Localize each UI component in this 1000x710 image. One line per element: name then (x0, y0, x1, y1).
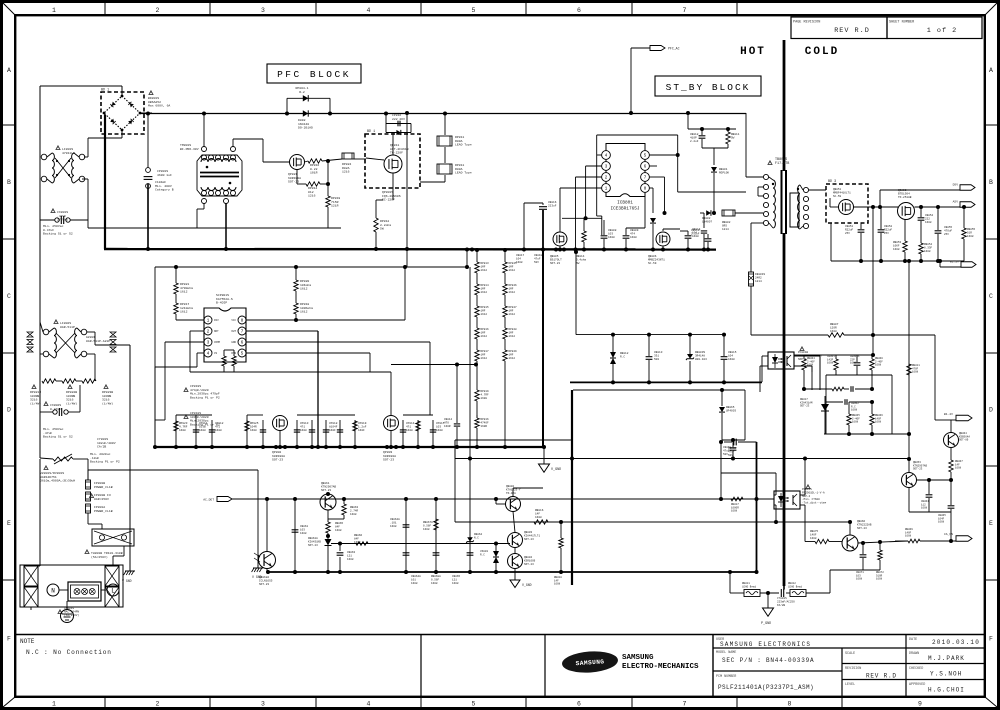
mosfet QP801 main PFC switch (384, 155, 402, 173)
wire x576 vcc drop (575, 254, 577, 335)
capacitor CB808 (601, 235, 608, 237)
resistor RP813 divider column A (475, 262, 479, 273)
svg-text:CS: CS (214, 352, 218, 355)
ST_BY BLOCK label box (655, 76, 761, 96)
svg-text:25V: 25V (845, 232, 850, 235)
svg-text:5: 5 (472, 701, 476, 708)
svg-text:HOT: HOT (740, 46, 766, 58)
resistor RP823 on pfc gnd bus (175, 420, 177, 447)
resistor RB863 (343, 499, 345, 504)
earth ground symbol (66, 601, 68, 609)
svg-text:H.G.CHOI: H.G.CHOI (928, 687, 965, 694)
HOT COLD divider line upper segment (783, 40, 786, 171)
resistor RB855 (962, 228, 966, 239)
connector B1.2V out (961, 262, 976, 268)
svg-text:SOT-23: SOT-23 (259, 583, 269, 586)
svg-text:SAMSUNG: SAMSUNG (622, 654, 654, 662)
capacitor CP815 on pfc gnd bus (432, 420, 434, 447)
svg-text:SOT-23: SOT-23 (913, 468, 923, 471)
resistor RP819 (326, 196, 330, 207)
svg-text:1608: 1608 (630, 236, 637, 239)
svg-text:0AR-511P-A21P: 0AR-511P-A21P (86, 339, 110, 343)
wires AC inlet (39, 560, 41, 566)
transistor QB861 (320, 494, 336, 510)
svg-text:NOTE: NOTE (20, 638, 35, 645)
chassis ground V GND hatch (129, 565, 131, 571)
transistor QB802 cold left (506, 497, 521, 512)
svg-text:V_GND: V_GND (551, 468, 561, 472)
IC ICB801 pins left (602, 151, 611, 160)
svg-text:47011LB: 47011LB (62, 151, 75, 155)
svg-text:V GND: V GND (122, 579, 132, 583)
svg-text:R.C: R.C (620, 356, 625, 359)
wire bridge box entry (121, 86, 123, 96)
svg-text:SHEET NUMBER: SHEET NUMBER (889, 21, 915, 25)
wire LF801 right to bridge (84, 156, 88, 158)
box resistor RB802 (722, 210, 735, 216)
svg-text:1612: 1612 (300, 287, 308, 291)
svg-text:SOT-23: SOT-23 (857, 527, 867, 530)
svg-text:1608: 1608 (731, 510, 738, 513)
svg-text:ICB801: ICB801 (617, 201, 633, 206)
svg-text:2.2uF: 2.2uF (690, 140, 699, 143)
wire resistor row (56, 380, 62, 382)
resistor RP816 gate (308, 159, 322, 163)
svg-text:(1/4W): (1/4W) (66, 401, 77, 405)
resistor RP814 divider column A (475, 284, 479, 295)
mosfet QP803 gate driver (384, 416, 399, 431)
wire TM801S top pins (203, 114, 205, 147)
TM801S top edge pins (202, 155, 207, 160)
page revision box top right (791, 17, 887, 39)
svg-text:PCM NUMBER: PCM NUMBER (716, 675, 736, 679)
svg-text:1216: 1216 (308, 194, 316, 198)
svg-text:8: 8 (788, 701, 792, 708)
fuse FP802B (86, 492, 91, 501)
wire CX802 right up (79, 385, 81, 412)
svg-text:1608: 1608 (452, 582, 459, 585)
transistor QB803 (508, 533, 523, 548)
svg-text:REV R.D: REV R.D (866, 673, 897, 680)
svg-text:160F: 160F (358, 429, 365, 432)
connector D5V (960, 185, 975, 191)
resistor RP820 right of IC (294, 280, 298, 291)
svg-text:N: N (51, 588, 55, 595)
wire BD3 to output rail y207 (854, 206, 899, 208)
wire y335 extension to x935 rail (873, 334, 935, 336)
wire x155 vertical (154, 267, 156, 447)
resistor RP812 power (374, 218, 378, 232)
resistor RB869 to CA_ON (908, 539, 920, 543)
svg-text:1608: 1608 (893, 248, 900, 251)
svg-text:OUT: OUT (231, 330, 236, 333)
capacitor CB862 fb (844, 399, 846, 405)
cold mid line y522 (455, 521, 850, 523)
wire y543 regulator line (331, 543, 510, 545)
opto coupler PC801B top (768, 352, 794, 369)
resistor RB817 on acdet line (731, 497, 743, 501)
svg-text:1608: 1608 (431, 582, 438, 585)
svg-text:1608: 1608 (215, 429, 222, 432)
transistor QB866 (842, 535, 858, 551)
svg-text:1608: 1608 (938, 521, 945, 524)
svg-text:1608: 1608 (411, 582, 418, 585)
svg-text:TO-251AB: TO-251AB (898, 196, 912, 199)
thick PFC return bus y249 (104, 248, 716, 251)
svg-text:1608: 1608 (300, 532, 307, 535)
svg-text:VCC: VCC (231, 319, 236, 322)
svg-text:1608: 1608 (516, 261, 523, 264)
TM801S bottom outer pins (202, 199, 207, 204)
resistor RP821B (62, 379, 76, 383)
capacitor CY8010 center (760, 592, 779, 594)
thick vertical from bridge minus (104, 115, 106, 249)
mosfet QB851 (839, 200, 854, 215)
feedback network box (826, 374, 892, 376)
column x406 (405, 499, 407, 572)
bridge rectifier BD801S diamond (104, 96, 140, 130)
diode DB802 row to transformer (700, 212, 704, 214)
svg-text:1: 1 (52, 7, 56, 14)
zone column ticks top (104, 3, 106, 15)
svg-text:1608: 1608 (608, 236, 615, 239)
svg-text:M.J.PARK: M.J.PARK (928, 655, 965, 662)
svg-text:ELECTRO-MECHANICS: ELECTRO-MECHANICS (622, 663, 699, 671)
wire LF802 right rail (87, 331, 95, 333)
svg-text:LEAD Bead: LEAD Bead (742, 584, 756, 588)
wire output gnd rail y261 (831, 260, 964, 262)
samsung electro-mechanics logo (561, 650, 618, 675)
resistor RB811 (726, 132, 730, 144)
capacitor CB815 (721, 356, 728, 358)
resistor RB807 row (751, 334, 828, 336)
wire LF802 left connections (40, 322, 43, 332)
svg-text:SOT-23: SOT-23 (272, 458, 283, 462)
capacitor CP801S (147, 114, 149, 173)
svg-text:F17-2TB: F17-2TB (775, 162, 789, 166)
svg-text:1608: 1608 (300, 429, 307, 432)
svg-text:SEC P/N : BN44-00339A: SEC P/N : BN44-00339A (722, 657, 814, 664)
svg-text:ICE3BR1765J: ICE3BR1765J (611, 207, 640, 212)
svg-text:SOT-23: SOT-23 (800, 405, 810, 408)
resistor RP814 source branch (296, 170, 298, 185)
wires opto PC801B (762, 355, 768, 357)
svg-text:SOT-23: SOT-23 (524, 538, 534, 541)
svg-text:4: 4 (367, 7, 371, 14)
svg-text:1612: 1612 (481, 313, 488, 316)
ferrite bead LB802 right (790, 590, 806, 597)
svg-text:1608: 1608 (924, 250, 931, 253)
svg-text:1608: 1608 (354, 541, 361, 544)
mosfet QP821 (290, 155, 305, 170)
svg-text:25V: 25V (884, 232, 889, 235)
mosfet QB806 (656, 232, 670, 246)
svg-text:ST_BY BLOCK: ST_BY BLOCK (666, 82, 751, 93)
shunt regulator DB817 KIA431 (821, 404, 829, 411)
svg-text:9: 9 (918, 701, 922, 708)
svg-text:5W: 5W (380, 227, 384, 231)
wire left vertical rail (39, 86, 41, 155)
zone row ticks left and right (3, 124, 15, 126)
dashed box BD1 with PFC mosfet (365, 134, 420, 188)
svg-text:SOT-23: SOT-23 (288, 180, 299, 184)
capacitor CP811 on pfc gnd bus (195, 420, 197, 447)
wire x470 vertical long (469, 267, 471, 572)
zener DB864 and cap on x470 (467, 537, 473, 541)
svg-text:0AR/250V: 0AR/250V (94, 497, 109, 501)
resistor RP825 on pfc gnd bus (246, 420, 248, 447)
series RC in fb box (832, 387, 844, 391)
svg-text:5: 5 (472, 7, 476, 14)
AC_DET line (232, 498, 774, 500)
capacitor CB863 on y543 (339, 544, 341, 552)
resistor RP826 on x477 lower (475, 418, 479, 428)
svg-text:1608: 1608 (852, 421, 859, 424)
IC SCP801 PFC controller box (204, 308, 246, 362)
svg-text:4: 4 (367, 701, 371, 708)
IC ICB801 pins right (641, 151, 650, 160)
capacitor CB809 (623, 235, 630, 237)
svg-text:A: A (7, 67, 11, 74)
svg-text:1612: 1612 (509, 269, 516, 272)
wires ICB801 left pins (597, 154, 602, 156)
wire CX801 right vertical (87, 179, 89, 220)
svg-text:R.C: R.C (480, 553, 485, 556)
svg-text:7: 7 (683, 7, 687, 14)
svg-text:Backing P1 or P2: Backing P1 or P2 (190, 395, 220, 399)
svg-text:1608: 1608 (850, 362, 857, 365)
wire snubber to diode DB801 (702, 147, 728, 149)
resistor RP818 right of IC (294, 303, 298, 314)
svg-text:1 of 2: 1 of 2 (927, 27, 957, 35)
svg-text:223uF: 223uF (548, 205, 557, 208)
wire HOT COLD divider to bead line (783, 586, 785, 590)
capacitor CB864a (926, 494, 933, 496)
svg-text:POWER_CL1B: POWER_CL1B (94, 509, 113, 513)
wire varistor to fuse area (39, 459, 41, 560)
fuse FP803B (86, 504, 91, 513)
svg-text:0.47uF: 0.47uF (50, 407, 61, 411)
svg-text:1612: 1612 (509, 357, 516, 360)
svg-text:B: B (989, 179, 993, 186)
svg-text:1612: 1612 (509, 335, 516, 338)
capacitor CX801S (40, 219, 57, 221)
svg-text:Backing S1 or S2: Backing S1 or S2 (43, 232, 73, 236)
svg-text:1608: 1608 (955, 467, 962, 470)
wire x155 to gnd bus (154, 367, 156, 447)
svg-text:160F: 160F (329, 429, 336, 432)
svg-text:POWER_CL1B: POWER_CL1B (94, 485, 113, 489)
svg-text:1612: 1612 (300, 310, 308, 314)
capacitor CB814a below (703, 213, 705, 228)
AC inlet connector CN801S (68, 582, 101, 601)
AC inlet fuse symbol right (105, 566, 119, 586)
svg-text:1612: 1612 (180, 310, 188, 314)
svg-text:-Min. CT600: -Min. CT600 (802, 497, 820, 501)
svg-text:1608: 1608 (967, 235, 974, 238)
capacitor CP813 on pfc gnd bus (296, 420, 298, 447)
diode DB804 below pin8 (650, 218, 656, 223)
svg-text:5W: 5W (731, 137, 735, 140)
svg-text:SOT-23: SOT-23 (550, 262, 560, 265)
svg-text:AC_DET: AC_DET (203, 499, 214, 502)
svg-text:275Vac: 275Vac (57, 218, 68, 222)
svg-text:1608: 1608 (350, 513, 357, 516)
resistor RP821 left of IC (174, 283, 178, 294)
thermal cutoff TH801B (88, 523, 102, 525)
svg-text:INV: INV (214, 319, 219, 322)
svg-text:0610a,4900A,(B)30uH: 0610a,4900A,(B)30uH (40, 479, 75, 483)
AC inlet assembly outline (20, 565, 123, 607)
mosfet QP802 gate driver (273, 416, 288, 431)
fuse FP801B POWER_CL1B (86, 480, 91, 489)
svg-text:SCALE: SCALE (845, 652, 855, 656)
capacitor CX802S (40, 411, 55, 413)
svg-text:(5A/250V): (5A/250V) (91, 555, 108, 559)
resistor RP846 divider column B (503, 284, 507, 295)
svg-text:SOT-23: SOT-23 (308, 544, 318, 547)
svg-text:A: A (989, 67, 993, 74)
AC inlet neutral terminal (47, 584, 59, 596)
resistor RB866 (870, 414, 874, 425)
svg-text:UF4003: UF4003 (726, 410, 736, 413)
wire PFC bus to transformer top (745, 113, 747, 177)
svg-text:1216: 1216 (342, 170, 350, 174)
capacitor CB853 at QB852 source (918, 217, 925, 219)
svg-text:1608: 1608 (856, 578, 863, 581)
svg-text:50V: 50V (728, 454, 733, 457)
resistor RB866 on y543 (356, 542, 368, 546)
svg-text:R-2: R-2 (299, 90, 305, 94)
varistor RV801S (53, 454, 73, 464)
svg-text:3: 3 (261, 7, 265, 14)
svg-text:PAGE REVISION: PAGE REVISION (793, 21, 820, 25)
svg-text:BD 3: BD 3 (828, 180, 836, 184)
svg-text:6: 6 (577, 7, 581, 14)
svg-text:1608: 1608 (827, 362, 834, 365)
svg-text:B-4DIP: B-4DIP (216, 301, 227, 305)
wire y334 stby secondary top (576, 334, 726, 336)
photo transistor QB862A (259, 552, 276, 569)
svg-text:DO-201AD: DO-201AD (298, 126, 313, 130)
capacitor CB871 at QB866 (860, 554, 867, 556)
HOT COLD divider line lower segment (783, 233, 786, 586)
capacitor CB851 below BD3 (858, 229, 865, 231)
capacitor CP814 on pfc gnd bus (402, 420, 404, 447)
svg-text:1214: 1214 (722, 228, 729, 231)
inductor LP801 small (222, 356, 226, 366)
svg-text:1608: 1608 (406, 429, 413, 432)
svg-text:PFC_AC: PFC_AC (668, 47, 680, 51)
svg-text:Max 600V, 6A: Max 600V, 6A (148, 104, 170, 108)
svg-text:-Tot.dist--ctme: -Tot.dist--ctme (802, 501, 827, 505)
svg-text:0.4ohm: 0.4ohm (576, 258, 586, 262)
resistor RB872 at QB866 (878, 550, 882, 560)
svg-text:121R: 121R (331, 204, 339, 208)
svg-text:Backing S1 or S2: Backing S1 or S2 (43, 435, 73, 439)
svg-text:1: 1 (52, 701, 56, 708)
svg-text:1608: 1608 (851, 409, 858, 412)
wire earth return line (88, 469, 258, 471)
svg-text:500: 500 (654, 358, 659, 361)
svg-text:4600 1uF: 4600 1uF (157, 173, 172, 177)
svg-text:SAMSUNG ELECTRONICS: SAMSUNG ELECTRONICS (720, 641, 811, 648)
thick rail x756 down to gnd bus (756, 442, 758, 572)
svg-text:3: 3 (261, 701, 265, 708)
resistor RB814 (582, 231, 586, 242)
svg-text:CA_ON: CA_ON (944, 533, 953, 536)
svg-text:LEVEL: LEVEL (845, 683, 855, 687)
capacitor CP812 on pfc gnd bus (211, 420, 213, 447)
svg-text:B: B (7, 179, 11, 186)
wire bus junction dots (470, 248, 474, 252)
wire x467 vertical (466, 250, 468, 268)
svg-text:Y.S.NOH: Y.S.NOH (930, 671, 962, 678)
svg-text:V_GND: V_GND (522, 583, 532, 587)
svg-text:1612: 1612 (180, 290, 188, 294)
svg-text:1608: 1608 (728, 358, 735, 361)
TB801S core (781, 170, 783, 234)
svg-text:800-103: 800-103 (695, 358, 707, 361)
wire left rail to CX802 (39, 381, 41, 412)
svg-text:101R: 101R (310, 171, 318, 175)
TB801S secondary winding (798, 185, 800, 229)
svg-text:SC-59: SC-59 (648, 262, 657, 265)
wire rail to varistor (39, 412, 41, 458)
mosfet QB852 (898, 203, 915, 220)
resistor RB860 fb right (870, 359, 874, 370)
svg-text:A5V: A5V (953, 201, 959, 204)
wire thermal to inlet fuse (123, 546, 125, 556)
svg-text:1608: 1608 (921, 507, 928, 510)
thick vcc rail x543 down (542, 250, 544, 448)
PFC BLOCK label box (267, 64, 361, 83)
svg-text:25V: 25V (944, 233, 949, 236)
svg-text:C: C (7, 293, 11, 300)
wires opto PC801S right (800, 494, 805, 496)
column x436 (435, 499, 437, 572)
resistor RP816 divider column A (475, 328, 479, 339)
ferrite bead FB801S (749, 272, 754, 286)
svg-text:160R: 160R (444, 425, 451, 428)
ground hatch right of inlet (257, 565, 259, 568)
svg-text:6: 6 (577, 701, 581, 708)
svg-text:BD 1: BD 1 (367, 130, 375, 134)
transistor QB853 (902, 473, 917, 488)
svg-text:L: L (111, 588, 115, 595)
connector A5V (960, 202, 975, 208)
resistor RP821C (82, 379, 96, 383)
title block and note area divider line (15, 634, 985, 636)
capacitor CB810 (685, 235, 692, 237)
transistor QB804 (508, 554, 523, 569)
resistor RP849 divider column B (503, 350, 507, 361)
resistor RB875 on out line (815, 539, 829, 543)
capacitor CB868 series (733, 439, 735, 446)
svg-text:1612: 1612 (481, 357, 488, 360)
resistor RP811 sense pair (444, 114, 446, 136)
svg-text:REVISION: REVISION (845, 667, 861, 671)
svg-text:GND: GND (231, 341, 236, 344)
wire primary pins left (762, 212, 763, 214)
wire PFC_AC down to bus (630, 48, 632, 113)
svg-text:E: E (7, 520, 11, 527)
svg-text:1608: 1608 (199, 429, 206, 432)
wire IC pin2 loop left (190, 330, 204, 332)
AC inlet fuse symbol left (24, 566, 38, 586)
wire QB802 base feed (495, 499, 497, 504)
resistor RP824 box (342, 153, 354, 159)
